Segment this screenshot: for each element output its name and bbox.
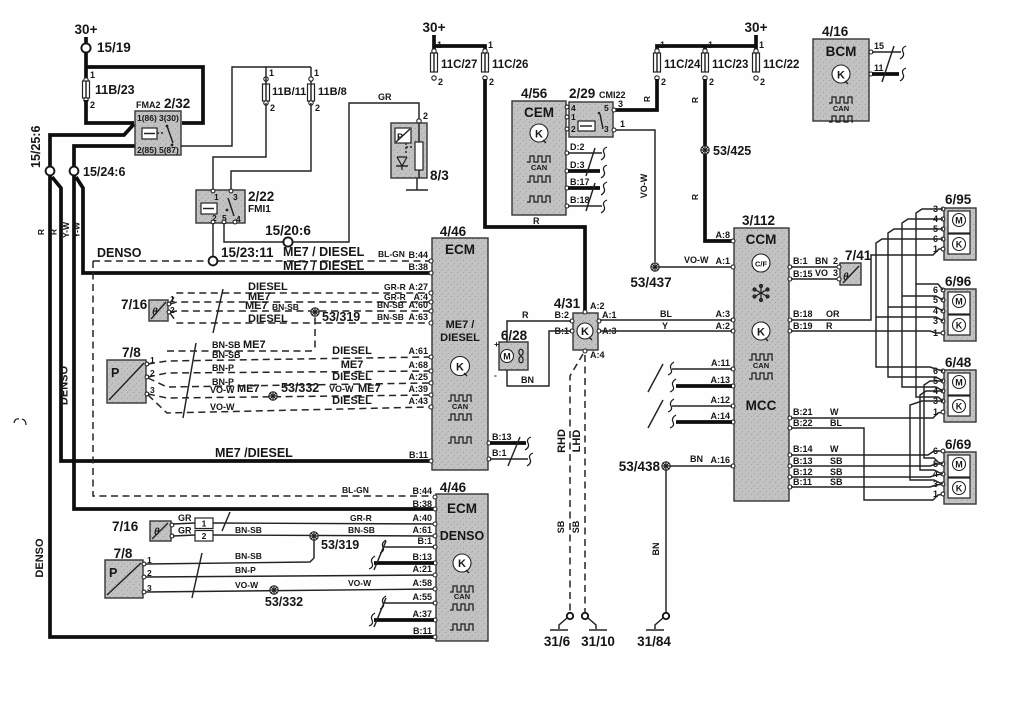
wire relay pin 86 to connector 15/25:6: [50, 124, 134, 167]
svg-text:1: 1: [933, 244, 938, 254]
svg-text:SB: SB: [571, 520, 581, 533]
svg-text:53/332: 53/332: [265, 595, 303, 609]
wire GR-R to ECM A:40: [213, 513, 435, 524]
rotated DENSO label (lower): [34, 538, 46, 578]
svg-text:ME7 /: ME7 /: [446, 319, 475, 331]
slash mark lower 7/8 wires: [192, 553, 202, 598]
svg-text:M: M: [955, 216, 963, 226]
svg-text:CAN: CAN: [454, 592, 470, 601]
svg-text:1: 1: [933, 328, 938, 338]
slash mark BCM pins: [882, 46, 894, 82]
wire 30+ bus to fuses 11C/24 11C/23 11C/22: [657, 46, 756, 52]
svg-text:ME7 / DIESEL: ME7 / DIESEL: [283, 259, 365, 273]
sensor 7/16 (lower): [112, 513, 192, 541]
svg-text:R: R: [533, 216, 540, 226]
wire VO-W from splice to CCM A:1: [659, 255, 734, 267]
wire dashed DIESEL to ECM A:27: [170, 281, 429, 303]
svg-text:5(87): 5(87): [159, 145, 179, 155]
svg-text:R: R: [690, 194, 700, 200]
svg-text:3: 3: [233, 192, 238, 202]
wire fuse 11B/23 to relay 2/32 pin 1(86): [86, 100, 134, 123]
svg-text:K: K: [956, 402, 963, 412]
svg-text:B:11: B:11: [413, 626, 432, 636]
svg-text:M: M: [955, 378, 963, 388]
wire R from 11C/23 through splice 53/425 to CCM A:8: [690, 79, 734, 241]
wire 30+ to fuses 11C/27 11C/26: [434, 46, 485, 52]
svg-text:A:61: A:61: [412, 525, 432, 535]
svg-text:SB: SB: [556, 520, 566, 533]
svg-text:B:14: B:14: [793, 444, 813, 454]
svg-text:7/8: 7/8: [122, 345, 141, 360]
svg-text:4/56: 4/56: [521, 86, 548, 101]
BCM pin 15: [869, 41, 906, 59]
svg-text:B:38: B:38: [412, 499, 432, 509]
wire R bus 1 (15/25:6 down to lower ECM B:11): [36, 175, 436, 637]
ECM pin B:38: [283, 259, 433, 275]
control module CEM 4/56: [512, 86, 566, 215]
svg-text:ME7 / DIESEL: ME7 / DIESEL: [283, 245, 365, 259]
svg-text:ME7: ME7: [243, 339, 266, 351]
BCM pin 11: [869, 63, 906, 81]
fuse 11B/23: [83, 70, 135, 110]
wire BN splice down to ground 31/84: [651, 470, 666, 613]
svg-text:A:27: A:27: [408, 282, 428, 292]
CEM pin B:17: [565, 177, 607, 195]
ECM pin A:25: [408, 372, 433, 385]
svg-text:15/23:11: 15/23:11: [221, 245, 274, 260]
connector 15/19: [81, 40, 130, 55]
connector unit 6/95: [933, 192, 976, 260]
svg-text:2/22: 2/22: [248, 189, 274, 204]
wire RHD dashed from 4/31 A:4 to ground 31/6: [556, 354, 583, 613]
svg-text:1: 1: [90, 70, 95, 80]
svg-text:K: K: [956, 321, 963, 331]
svg-text:11B/23: 11B/23: [95, 83, 135, 97]
wire dashed ME7 to ECM A:4: [170, 291, 429, 304]
svg-text:2: 2: [833, 256, 838, 266]
ECM pin A:37 thick with break: [369, 609, 437, 626]
svg-text:2/29: 2/29: [569, 86, 595, 101]
CCM pin A:12 wire with break: [668, 395, 735, 412]
svg-text:1: 1: [202, 519, 207, 529]
svg-text:1: 1: [933, 489, 938, 499]
svg-text:7/16: 7/16: [121, 297, 148, 312]
svg-text:BN-P: BN-P: [212, 363, 234, 373]
sensor 7/8 (lower): [105, 546, 152, 598]
svg-text:ECM: ECM: [447, 501, 477, 516]
harness wire links 6/48 pins to 6/69 pins: [910, 381, 943, 484]
svg-text:15/19: 15/19: [97, 40, 131, 55]
svg-text:B:19: B:19: [793, 321, 813, 331]
svg-text:31/84: 31/84: [637, 634, 671, 649]
svg-text:6: 6: [933, 285, 938, 295]
svg-text:GR-R: GR-R: [384, 282, 406, 292]
splice 53/332 (upper): [269, 381, 319, 400]
svg-text:6/48: 6/48: [945, 355, 972, 370]
svg-text:-: -: [494, 370, 497, 380]
svg-text:53/437: 53/437: [630, 275, 671, 290]
svg-text:11C/27: 11C/27: [441, 59, 477, 71]
svg-text:15: 15: [874, 41, 884, 51]
rotated DENSO label (mid): [59, 366, 71, 406]
svg-text:R: R: [642, 96, 652, 102]
wire 15/19 to fuse and loop: [84, 52, 88, 81]
wire BN-SB 7/8 pin1 to splice 53/319: [146, 540, 314, 564]
control module CCM 3/112: [734, 213, 789, 501]
fuse 11C/24: [654, 40, 702, 87]
ECM pin A:4: [413, 292, 433, 304]
svg-text:2/32: 2/32: [164, 96, 190, 111]
svg-text:53/319: 53/319: [321, 538, 359, 552]
svg-text:A:14: A:14: [710, 411, 730, 421]
svg-text:Y-W: Y-W: [61, 221, 71, 238]
svg-text:B:13: B:13: [492, 432, 512, 442]
svg-text:3: 3: [833, 268, 838, 278]
ECM pin B:11 (upper, thick ME7/DIESEL): [215, 446, 433, 463]
slash mark ECM right pins: [508, 437, 520, 466]
svg-text:6/95: 6/95: [945, 192, 972, 207]
node 30+ (middle): [423, 20, 446, 46]
svg-text:5: 5: [604, 103, 609, 113]
slash marks CEM pin pairs: [586, 148, 595, 211]
svg-text:A:63: A:63: [408, 312, 428, 322]
svg-text:A:12: A:12: [710, 395, 730, 405]
relay 2/29 CMI22: [565, 86, 625, 137]
svg-text:1: 1: [759, 40, 764, 50]
wire dashed BN-P DIESEL to ECM A:25: [148, 371, 429, 387]
svg-text:7/8: 7/8: [114, 546, 133, 561]
svg-text:53/425: 53/425: [713, 144, 751, 158]
ground 31/6: [544, 613, 573, 649]
svg-text:2: 2: [661, 77, 666, 87]
svg-text:11B/8: 11B/8: [318, 86, 347, 98]
fuse 11C/22: [753, 40, 800, 87]
svg-text:2: 2: [571, 124, 576, 134]
svg-text:2: 2: [90, 100, 95, 110]
svg-text:K: K: [535, 129, 543, 141]
svg-text:A:68: A:68: [408, 360, 428, 370]
connector 4/31: [554, 296, 617, 360]
svg-text:GR: GR: [178, 513, 192, 523]
wire BN 6/28 to 4/31 B:1: [507, 331, 571, 386]
CCM pin B:19 wire R to 6/96 pin 1: [788, 321, 943, 333]
svg-text:1(86): 1(86): [137, 113, 157, 123]
wire R from 11C/24 to relay 2/29 pin 3: [614, 79, 657, 110]
svg-text:VO-W: VO-W: [210, 385, 235, 395]
svg-text:R: R: [826, 321, 833, 331]
svg-text:M: M: [955, 460, 963, 470]
svg-text:RHD: RHD: [556, 429, 568, 453]
control module ECM 4/46 ME7/DIESEL: [432, 224, 488, 470]
svg-text:A:55: A:55: [412, 592, 432, 602]
ECM pin B:1 right with break: [487, 448, 533, 466]
svg-text:1: 1: [314, 68, 319, 78]
svg-text:1: 1: [660, 40, 665, 50]
svg-text:+: +: [494, 339, 499, 349]
svg-text:B:22: B:22: [793, 418, 813, 428]
connector 15/25:6: [29, 126, 54, 176]
CCM pin A:8: [715, 230, 735, 243]
svg-text:B:12: B:12: [793, 467, 813, 477]
svg-text:CAN: CAN: [452, 402, 468, 411]
wire VO-W 7/8 pin3 via splice 53/332 to ECM A:58: [146, 578, 435, 592]
wire VO-W from 2/29 pin 1 to splice 53/437: [616, 130, 655, 262]
ECM pin B:1 (lower) with break: [380, 536, 437, 553]
svg-text:A:8: A:8: [715, 230, 730, 240]
svg-text:P: P: [109, 566, 117, 580]
svg-text:CAN: CAN: [531, 163, 547, 172]
svg-text:LHD: LHD: [571, 430, 583, 453]
slash mark A:55/A:37: [374, 598, 386, 627]
svg-text:3: 3: [604, 124, 609, 134]
svg-text:BL-GN: BL-GN: [378, 249, 405, 259]
svg-text:4/46: 4/46: [440, 224, 467, 239]
svg-text:A:25: A:25: [408, 372, 428, 382]
wire R bus 2 (to upper ECM B:11): [49, 177, 433, 461]
wire 11B/8 to relay 2/22 pin 3: [231, 103, 311, 190]
splice 53/332 (lower): [265, 586, 303, 609]
svg-text:SB: SB: [830, 467, 843, 477]
svg-text:BL: BL: [660, 309, 672, 319]
fuse 11C/23: [702, 40, 749, 87]
svg-text:2: 2: [423, 111, 428, 121]
ECM pin A:39: [408, 384, 433, 397]
svg-text:B:13: B:13: [412, 552, 432, 562]
slash mark variant (upper 7/16 lines): [213, 289, 223, 333]
svg-text:D:3: D:3: [570, 160, 585, 170]
svg-text:C/F: C/F: [755, 260, 768, 269]
svg-text:31/10: 31/10: [581, 634, 615, 649]
svg-text:CAN: CAN: [753, 361, 769, 370]
wire relay 5(87) to fuses 11B/11 and 11B/8: [181, 67, 311, 146]
wire 11B/11 to relay 2/22 pin 1: [213, 103, 266, 190]
svg-text:A:2: A:2: [715, 321, 730, 331]
ECM pin A:27: [408, 282, 433, 295]
svg-text:K: K: [458, 558, 466, 570]
svg-text:7/41: 7/41: [845, 248, 872, 263]
relay 2/22 FMI1: [196, 189, 274, 224]
wire BL 4/31 A:1 to CCM A:3: [600, 309, 732, 320]
CCM pin A:13 wire with break: [670, 375, 735, 392]
svg-text:VO-W: VO-W: [329, 384, 354, 394]
svg-text:B:11: B:11: [793, 477, 812, 487]
ECM pin A:61: [408, 346, 433, 359]
node 30+ (right): [745, 20, 768, 46]
svg-text:11C/23: 11C/23: [712, 59, 748, 71]
ECM pin A:61 (lower): [412, 525, 437, 538]
svg-text:K: K: [837, 70, 845, 82]
wire dashed ME7 BN-SB from 7/8 pin 1 to splice: [167, 316, 315, 351]
svg-text:3/112: 3/112: [742, 213, 775, 228]
svg-text:BN-SB: BN-SB: [377, 300, 404, 310]
svg-text:MCC: MCC: [746, 398, 777, 413]
svg-text:A:60: A:60: [408, 300, 428, 310]
svg-text:Y-W: Y-W: [72, 221, 82, 238]
wire BN splice 53/438 to CCM A:16: [670, 454, 732, 466]
connector unit 6/48: [933, 355, 976, 422]
svg-text:1: 1: [488, 40, 493, 50]
svg-text:BL-GN: BL-GN: [342, 485, 369, 495]
svg-text:A:21: A:21: [412, 564, 432, 574]
svg-text:1: 1: [214, 192, 219, 202]
ECM pin B:13 right with break: [487, 432, 531, 450]
svg-text:ME7: ME7: [245, 300, 268, 312]
svg-text:1: 1: [933, 407, 938, 417]
svg-text:W: W: [830, 407, 839, 417]
sensor 7/16 (upper): [121, 294, 175, 321]
svg-text:A:16: A:16: [710, 455, 730, 465]
svg-text:B:21: B:21: [793, 407, 813, 417]
CCM pin B:12 wire SB to 6/69 pin 4: [788, 467, 943, 479]
svg-text:A:58: A:58: [412, 578, 432, 588]
svg-text:CEM: CEM: [524, 105, 554, 120]
svg-text:8/3: 8/3: [430, 168, 449, 183]
svg-text:BN-SB: BN-SB: [235, 525, 262, 535]
CCM pin A:2: [715, 321, 735, 333]
CCM pin B:15 / sensor 7/41 wire VO: [788, 268, 838, 281]
svg-text:4/16: 4/16: [822, 24, 849, 39]
inline connector 1 (lower 7/16): [173, 518, 213, 529]
svg-text:11B/11: 11B/11: [272, 86, 306, 98]
svg-text:B:17: B:17: [570, 177, 590, 187]
ECM pin B:11 (lower): [413, 626, 437, 639]
svg-text:3: 3: [150, 385, 155, 395]
svg-text:DENSO: DENSO: [97, 246, 142, 260]
svg-text:K: K: [757, 327, 765, 339]
ECM pin A:58: [412, 578, 437, 591]
wire Y-W bus 2 (to upper ECM B:38): [72, 177, 433, 273]
svg-text:B:44: B:44: [408, 250, 428, 260]
svg-text:11: 11: [874, 63, 884, 73]
svg-text:DIESEL: DIESEL: [248, 313, 288, 325]
svg-text:11C/26: 11C/26: [492, 59, 528, 71]
wire R from 11C/26 to 4/31 A:2: [485, 79, 585, 311]
harness wire bus pin6 6/95 to 6/96 pin3 to 6/48 pin6: [876, 239, 943, 371]
control module ECM 4/46 DENSO (lower): [436, 480, 488, 641]
svg-text:Y: Y: [662, 321, 668, 331]
svg-text:BN: BN: [521, 375, 534, 385]
fuse 11C/26: [482, 40, 529, 87]
svg-text:6/96: 6/96: [945, 274, 972, 289]
svg-text:BN: BN: [815, 256, 828, 266]
relay 2/32 FMA2: [135, 96, 190, 155]
CCM pin A:16: [710, 455, 735, 468]
svg-text:ME7: ME7: [358, 383, 381, 395]
ground below 8/3: [406, 178, 428, 190]
node DENSO dashed bus (upper): [93, 245, 429, 496]
svg-text:GR: GR: [178, 526, 192, 536]
fan motor 6/28: [494, 328, 528, 380]
ECM pin B:44 (lower) wire BL-GN dashed: [342, 485, 437, 499]
slash mark lower 7/16 wires: [222, 512, 230, 531]
wire GR from 15/20:6 to 8/3: [293, 92, 419, 242]
svg-text:A:61: A:61: [408, 346, 428, 356]
wire 2/22 pin 2 to connector 15/23:11: [212, 223, 214, 257]
ECM pin A:43: [408, 396, 433, 409]
svg-text:1: 1: [571, 112, 576, 122]
slash mark variant (upper 7/8 lines): [183, 343, 196, 418]
connector 15/20:6: [265, 223, 311, 247]
svg-text:R: R: [690, 97, 700, 103]
svg-text:R: R: [49, 229, 59, 235]
svg-text:A:11: A:11: [711, 358, 730, 368]
wire dashed VO-W ME7 via splice 53/332 to ECM A:39: [148, 383, 429, 398]
svg-text:30+: 30+: [745, 20, 768, 35]
CCM pin A:3: [715, 309, 735, 322]
svg-text:2: 2: [760, 77, 765, 87]
CEM pin B:18: [565, 195, 607, 213]
CCM pin B:11 wire SB to 6/69 pin 3: [788, 477, 943, 489]
svg-text:7/16: 7/16: [112, 519, 139, 534]
svg-text:A:3: A:3: [715, 309, 730, 319]
svg-text:B:13: B:13: [793, 456, 813, 466]
svg-text:BL: BL: [830, 418, 842, 428]
connector unit 6/69: [933, 437, 976, 504]
svg-text:53/438: 53/438: [619, 459, 661, 474]
svg-text:4/31: 4/31: [554, 296, 581, 311]
svg-text:DIESEL: DIESEL: [332, 371, 372, 383]
svg-text:A:39: A:39: [408, 384, 428, 394]
splice 53/438: [619, 459, 670, 474]
svg-text:A:4: A:4: [590, 350, 605, 360]
svg-text:2: 2: [270, 103, 275, 113]
CEM pin D:2: [565, 142, 607, 160]
connector 15/23:11: [209, 245, 274, 265]
svg-text:P: P: [111, 366, 119, 380]
svg-text:A:13: A:13: [710, 375, 730, 385]
CCM pin A:14 wire with break: [670, 411, 735, 428]
svg-text:CAN: CAN: [833, 104, 849, 113]
wire dashed DIESEL to ECM A:63: [170, 312, 429, 325]
CCM pin B:22 wire BL to 6/69 pin 1: [788, 418, 943, 500]
svg-text:4/46: 4/46: [440, 480, 467, 495]
svg-text:VO-W: VO-W: [235, 580, 259, 590]
svg-text:A:1: A:1: [602, 310, 617, 320]
svg-text:15/24:6: 15/24:6: [83, 165, 125, 179]
CCM pin B:1 / sensor 7/41 wire BN: [788, 256, 838, 269]
svg-text:1: 1: [708, 40, 713, 50]
svg-text:BN-P: BN-P: [235, 565, 256, 575]
connector unit 6/96: [933, 274, 976, 341]
wire LHD dashed from 4/31 A:4 to ground 31/10: [571, 355, 585, 613]
svg-text:11C/24: 11C/24: [664, 59, 701, 71]
svg-text:DENSO: DENSO: [440, 529, 485, 543]
svg-text:ME7 /DIESEL: ME7 /DIESEL: [215, 446, 293, 460]
splice 53/319 (lower): [310, 532, 359, 552]
wire dashed BN-P ME7 to ECM A:68: [148, 359, 429, 377]
svg-text:R: R: [36, 229, 46, 235]
svg-text:31/6: 31/6: [544, 634, 571, 649]
svg-text:B:1: B:1: [417, 536, 432, 546]
svg-text:VO: VO: [815, 268, 828, 278]
ground 31/84: [637, 613, 671, 649]
svg-text:W: W: [830, 444, 839, 454]
node 30+ (left): [75, 22, 98, 43]
svg-text:B:1: B:1: [492, 448, 507, 458]
svg-text:B:18: B:18: [570, 195, 590, 205]
svg-text:B:2: B:2: [554, 310, 569, 320]
svg-text:VO-W: VO-W: [210, 402, 235, 412]
wire BN-SB via splice 53/319 to ECM A:61: [213, 525, 435, 536]
CCM pin B:14 wire W to 6/69 pin 6: [788, 444, 943, 457]
svg-text:ME7: ME7: [341, 359, 364, 371]
CCM pin A:1: [715, 256, 735, 269]
fuse 11B/11: [263, 67, 307, 113]
svg-text:BN-SB: BN-SB: [377, 312, 404, 322]
ECM pin A:21: [412, 564, 437, 577]
svg-text:DIESEL: DIESEL: [440, 332, 480, 344]
control module BCM 4/16: [813, 24, 869, 122]
